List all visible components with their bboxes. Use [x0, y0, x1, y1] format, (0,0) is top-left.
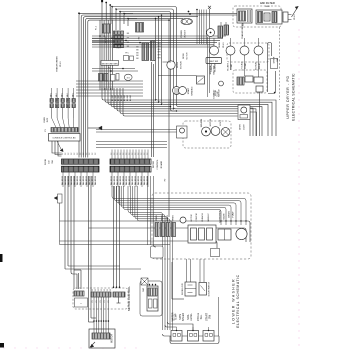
svg-text:12: 12 [101, 289, 103, 291]
wire bundle: board risers feeding washer bundle [128, 186, 163, 330]
svg-text:TRANSFORMER: TRANSFORMER [241, 23, 244, 39]
hatched pair lower-left [99, 74, 104, 82]
junction arrow at left board area [98, 126, 102, 130]
dispenser box pair [218, 229, 231, 240]
svg-text:BOARD: BOARD [160, 160, 163, 168]
svg-text:12: 12 [65, 153, 67, 155]
door switch box [199, 283, 207, 296]
svg-text:12: 12 [126, 153, 128, 155]
svg-text:P3: P3 [45, 129, 47, 131]
svg-text:12: 12 [138, 153, 140, 155]
svg-text:12: 12 [89, 153, 91, 155]
svg-text:PRES: PRES [156, 215, 158, 221]
T mark below strip B [118, 297, 120, 303]
relay K3 [254, 77, 263, 83]
interface module box [49, 134, 81, 142]
svg-text:21: 21 [92, 300, 94, 302]
strip feed verticals x151-153 [151, 62, 153, 157]
svg-text:WH-BU12: WH-BU12 [80, 175, 82, 185]
relay K2 [245, 76, 253, 82]
mid horizontals y38-42 [92, 38, 123, 40]
svg-text:21: 21 [104, 300, 106, 302]
svg-text:12: 12 [147, 153, 149, 155]
svg-text:DRIVE: DRIVE [183, 52, 185, 59]
ptc block A [124, 56, 129, 61]
svg-text:BELT SW: BELT SW [209, 61, 218, 63]
door lock module small box [151, 246, 164, 258]
motor start winding circles [173, 87, 181, 95]
wire loop right of relay board [268, 43, 272, 93]
svg-text:COLD W: COLD W [196, 213, 198, 221]
perforation dots (faint) [298, 29, 299, 30]
svg-text:4 5 6: 4 5 6 [117, 48, 121, 50]
wire bundle: central verticals to board [99, 20, 101, 90]
svg-text:PUMP: PUMP [233, 211, 235, 218]
washer riser elbows into bottom switch row [163, 334, 169, 336]
svg-text:12: 12 [98, 289, 100, 291]
connector pair to transformer (hatched) [218, 26, 223, 38]
small box 2 [116, 74, 119, 81]
svg-text:12: 12 [114, 153, 116, 155]
svg-text:HI-LIMIT: HI-LIMIT [228, 62, 230, 71]
drive motor circle [167, 61, 175, 69]
wire bundle: mid horizontals y36-47 [92, 35, 226, 37]
wire stubs into circle row [213, 38, 215, 46]
svg-text:DOOR: DOOR [45, 158, 47, 165]
svg-text:LID: LID [49, 160, 51, 164]
svg-text:12: 12 [132, 153, 134, 155]
motor control dashed enclosure [73, 288, 128, 309]
bus elbows right of fan box [250, 108, 253, 136]
staircase lines into CN blocks / risers [112, 7, 262, 137]
pressure dome circle [180, 217, 186, 223]
board connector P2 (right segment) [110, 166, 151, 172]
wire bundle: board to washer nested elbows [112, 186, 246, 225]
drain pump circle [236, 228, 247, 239]
membrane connector strip [51, 128, 78, 133]
junction dots near oval [188, 11, 190, 13]
svg-text:DRYER: DRYER [153, 160, 155, 168]
svg-text:TIMER: TIMER [219, 41, 221, 48]
svg-text:12: 12 [80, 153, 82, 155]
junction dots washer feed drops [245, 220, 246, 221]
switch row return loop [170, 336, 219, 344]
svg-text:BELT SW: BELT SW [214, 66, 216, 75]
switch row through wire [168, 335, 171, 337]
scan mark left edge [0, 254, 3, 262]
svg-text:FA10: FA10 [265, 5, 269, 8]
svg-text:WH-BU12: WH-BU12 [117, 175, 119, 185]
connector CN-C (hatched) [136, 23, 144, 33]
svg-text:OUTLET: OUTLET [185, 29, 187, 38]
svg-text:EMI FILTER: EMI FILTER [260, 1, 275, 5]
svg-text:WH-BU12: WH-BU12 [141, 175, 143, 185]
svg-text:WH-BU12: WH-BU12 [120, 175, 122, 185]
svg-text:ELECTRICAL SCHEMATIC: ELECTRICAL SCHEMATIC [292, 73, 296, 121]
svg-text:DRIVE: DRIVE [177, 61, 179, 68]
dots on switch boxes [176, 330, 177, 331]
dryness control dashed enclosure [183, 121, 231, 148]
horizontal wire y75.5 [158, 75, 197, 77]
svg-text:WH-BU12: WH-BU12 [135, 175, 137, 185]
arrow below interface [57, 141, 61, 149]
svg-text:WH-BU12: WH-BU12 [71, 175, 73, 185]
svg-text:MOISTURE SEN: MOISTURE SEN [102, 63, 118, 65]
svg-text:WH-BU12: WH-BU12 [77, 175, 79, 185]
motor feed wires [93, 297, 95, 333]
svg-text:12: 12 [74, 153, 76, 155]
motor ground arrow [90, 342, 95, 347]
svg-text:PLUG: PLUG [60, 61, 62, 67]
buzzer oval [124, 74, 132, 80]
speed switch box [188, 331, 199, 342]
svg-text:CONTROL: CONTROL [157, 159, 159, 170]
heating element circle [210, 46, 219, 55]
svg-text:WH-BU12: WH-BU12 [65, 175, 67, 185]
terminal oval [181, 18, 192, 24]
svg-text:KG: KG [127, 77, 130, 79]
wire pair into motor control left [78, 273, 80, 289]
svg-text:12: 12 [111, 153, 113, 155]
svg-text:MOTOR: MOTOR [181, 61, 183, 69]
wire: long left risers to motor region [88, 176, 90, 322]
dashed cabinet border [279, 27, 281, 100]
svg-text:12: 12 [117, 153, 119, 155]
wire: horizontals y221/228 to washer outer [60, 221, 251, 242]
svg-text:WH-BU12: WH-BU12 [123, 175, 125, 185]
svg-text:12: 12 [120, 153, 122, 155]
svg-text:WH-BU12: WH-BU12 [114, 175, 116, 185]
noise filter crossed box [141, 278, 148, 285]
rotary strip V1 (hatched) [142, 43, 149, 61]
wire bundle: right risers feeding bus [156, 18, 277, 136]
start switch box [197, 76, 205, 84]
wire bundle: strip risers down-left x65-74 [64, 176, 66, 269]
svg-text:UPPER DRYER - PD: UPPER DRYER - PD [286, 75, 290, 118]
svg-text:SEL: SEL [200, 314, 203, 319]
svg-text:TRANSFORMER: TRANSFORMER [56, 56, 59, 72]
stubs labels into boxes [176, 327, 178, 331]
svg-text:TEMP: TEMP [175, 313, 178, 320]
switch bank drop wires [51, 108, 53, 118]
svg-text:12: 12 [68, 153, 70, 155]
svg-text:WASH V: WASH V [207, 213, 210, 222]
wire tails below P2 [62, 172, 64, 187]
short elbows into CN-C [124, 14, 133, 25]
svg-text:BROKEN: BROKEN [210, 65, 212, 74]
wire bundle: board lines joining risers (bus) [102, 88, 156, 100]
svg-text:12: 12 [141, 153, 143, 155]
connector CN-B (stacked rows) [114, 31, 124, 34]
stubs into P1 right segment [111, 150, 113, 160]
svg-text:ELECTRICAL SCHEMATIC: ELECTRICAL SCHEMATIC [236, 274, 240, 327]
svg-text:12: 12 [92, 289, 94, 291]
console light circle 3 crossed [221, 128, 230, 137]
svg-text:LIGHT: LIGHT [244, 123, 246, 129]
motor control strip A [91, 292, 111, 297]
svg-text:INTF: INTF [47, 117, 49, 122]
small box w text [111, 75, 116, 82]
svg-text:TSTAT: TSTAT [216, 90, 219, 97]
svg-text:DOOR LOCK: DOOR LOCK [182, 282, 184, 295]
svg-text:12: 12 [95, 153, 97, 155]
wire exits washer bottom [186, 259, 188, 282]
svg-text:LEVEL: LEVEL [190, 313, 193, 321]
svg-text:WH-BU12: WH-BU12 [129, 175, 131, 185]
switch bank row 2 [50, 104, 53, 108]
svg-text:12: 12 [86, 153, 88, 155]
svg-text:12: 12 [62, 153, 64, 155]
dashed enclosure relay board [233, 70, 267, 93]
temp switch box [171, 331, 182, 342]
svg-text:SW: SW [209, 314, 212, 319]
svg-text:SW: SW [52, 160, 54, 163]
svg-text:12: 12 [77, 153, 79, 155]
fan box with circle [238, 105, 250, 120]
svg-text:WH-BU12: WH-BU12 [86, 175, 88, 185]
svg-text:DOOR SWITCH: DOOR SWITCH [209, 281, 211, 296]
fuse marker X [208, 6, 211, 9]
svg-text:CAP: CAP [142, 287, 145, 292]
svg-text:12: 12 [92, 153, 94, 155]
svg-text:HOT W: HOT W [191, 215, 193, 222]
svg-text:DRYER: DRYER [274, 56, 276, 63]
option switch box [203, 331, 214, 342]
triac block [256, 86, 263, 92]
svg-text:12: 12 [123, 153, 125, 155]
svg-text:DRUM: DRUM [240, 124, 242, 130]
left feed wire to door area [171, 262, 173, 299]
washer dashed enclosure [152, 193, 251, 259]
svg-text:WH-BU12: WH-BU12 [111, 175, 113, 185]
motor control strip B [113, 292, 125, 297]
console light circle 2 [211, 127, 220, 136]
svg-text:SPEED: SPEED [182, 313, 185, 322]
svg-text:12: 12 [104, 289, 106, 291]
svg-text:POWER: POWER [181, 30, 183, 38]
svg-text:CONSOLE CONTROL BD: CONSOLE CONTROL BD [52, 137, 76, 139]
svg-text:PRES: PRES [167, 215, 169, 221]
svg-text:MOTOR: MOTOR [187, 52, 189, 60]
rotary strip V2 (hatched) [151, 41, 156, 61]
svg-text:CYCLING: CYCLING [242, 61, 244, 70]
svg-text:WH-BU12: WH-BU12 [68, 175, 70, 185]
svg-text:WH-BU12: WH-BU12 [92, 175, 94, 185]
pressure switch contact strips [155, 223, 159, 237]
svg-text:WH-BU12: WH-BU12 [132, 175, 134, 185]
svg-text:MOTOR: MOTOR [210, 118, 212, 126]
wire bundle: risers x198-206 [196, 10, 198, 45]
wire: mid horizontals y141-148 [96, 141, 167, 143]
svg-text:BLEACH: BLEACH [201, 213, 204, 222]
svg-text:WH-BU12: WH-BU12 [126, 175, 128, 185]
capacitor body [147, 286, 158, 311]
wire bundle: top horizontal feed with left riser [79, 13, 237, 157]
hi-limit thermostat circle [226, 46, 235, 55]
svg-text:PRES: PRES [173, 215, 175, 221]
cycling thermostat circle [240, 46, 249, 55]
thermal cut-off circle [207, 29, 215, 37]
svg-text:START: START [187, 87, 190, 94]
idler pulley circle small [219, 81, 224, 86]
svg-text:SENSOR: SENSOR [201, 118, 203, 127]
belt switch box [206, 58, 222, 64]
svg-text:DRAIN: DRAIN [228, 211, 231, 218]
door lock switch box [185, 282, 196, 296]
svg-text:12: 12 [144, 153, 146, 155]
transformer T1 [237, 9, 252, 23]
svg-text:WH-BU12: WH-BU12 [83, 175, 85, 185]
svg-text:WH-BU12: WH-BU12 [95, 175, 97, 185]
svg-text:12: 12 [71, 153, 73, 155]
cabinet small box right [271, 59, 278, 69]
wire bundle: washer long riser upper [168, 20, 170, 217]
connector CN-A (hatched) [103, 24, 111, 33]
ptc block B [130, 56, 134, 61]
aux box with circle [177, 126, 188, 138]
capacitor enclosure [140, 281, 162, 316]
board connector P2 (left segment) [62, 166, 100, 172]
motor connector strip [92, 333, 110, 339]
svg-text:LIGHT: LIGHT [220, 119, 222, 126]
motor control aux box [75, 298, 88, 307]
wire: horizontals y241-244 [60, 241, 218, 248]
svg-text:12: 12 [135, 153, 137, 155]
svg-text:MOTOR: MOTOR [256, 62, 258, 70]
wires interface to P1 [52, 141, 62, 153]
vertical pair x207-209 [207, 37, 209, 97]
board connector P1 (left segment) [62, 159, 100, 164]
wires to dryness box left [96, 129, 183, 131]
console light circle 1 [202, 127, 211, 136]
svg-text:USER: USER [44, 117, 46, 123]
svg-text:DISPENSER: DISPENSER [220, 210, 222, 223]
water valve box [188, 225, 216, 243]
svg-text:12: 12 [95, 289, 97, 291]
moisture sensor box [101, 61, 119, 66]
junction box left rail [58, 194, 63, 203]
svg-text:PLUG: PLUG [223, 42, 225, 48]
stubs below transformer and EMI [220, 22, 222, 26]
scan mark bottom left corner [0, 343, 4, 348]
switch bank feed stubs [51, 88, 53, 99]
svg-text:12: 12 [110, 289, 112, 291]
svg-text:VALVE: VALVE [223, 213, 226, 220]
svg-text:PLUG: PLUG [294, 14, 296, 20]
switch bank row 1 [50, 99, 53, 103]
dashed enclosure power input [233, 6, 281, 27]
svg-text:MOTOR: MOTOR [111, 334, 114, 343]
junction dots mid bus [99, 35, 101, 37]
wire bundle: central lines to fan box [120, 88, 238, 114]
svg-text:P1-2: P1-2 [96, 26, 98, 30]
svg-text:LOWER WASHER: LOWER WASHER [232, 278, 236, 324]
relay K1 (hatched) [237, 77, 244, 85]
svg-text:12: 12 [129, 153, 131, 155]
svg-text:PRES: PRES [162, 215, 164, 221]
svg-text:WH-BU12: WH-BU12 [62, 175, 64, 185]
power cord plug [283, 12, 288, 22]
svg-text:WINDING: WINDING [192, 86, 194, 95]
stubs circle row to relay box [230, 55, 232, 70]
svg-text:12: 12 [107, 289, 109, 291]
mid horizontals y68-72 [92, 68, 135, 70]
svg-text:WH-BU12: WH-BU12 [74, 175, 76, 185]
svg-text:MOTOR CONTROL: MOTOR CONTROL [127, 286, 131, 311]
wire bundle: horizontals y81-97 left [76, 80, 143, 82]
dashed enclosure heater box [227, 43, 269, 62]
riser from door switch to row end [218, 297, 220, 336]
svg-text:WH-BU12: WH-BU12 [144, 175, 146, 185]
motor box [89, 329, 115, 348]
svg-text:~: ~ [80, 301, 82, 305]
svg-text:12: 12 [83, 153, 85, 155]
svg-text:WH-BU12: WH-BU12 [138, 175, 140, 185]
wire pair drive motor [163, 61, 172, 63]
capacitor top leads [149, 284, 150, 285]
svg-text:EXHAUST: EXHAUST [213, 89, 216, 99]
thermistor under tub [212, 250, 218, 256]
motor control left connector [74, 291, 84, 296]
motor relay circle [254, 46, 263, 55]
board connector P1 (right segment) [110, 159, 151, 164]
